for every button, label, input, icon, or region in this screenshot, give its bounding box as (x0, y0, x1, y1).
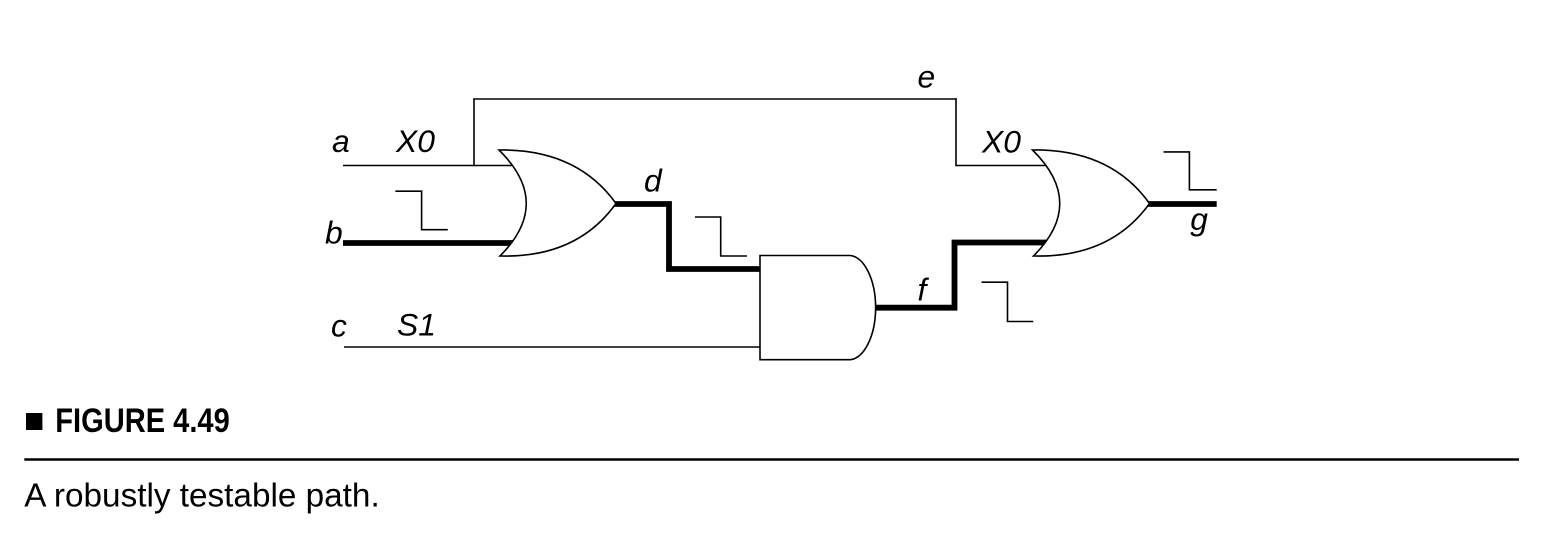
svg-text:FIGURE 4.49: FIGURE 4.49 (55, 401, 229, 440)
svg-text:b: b (325, 215, 343, 251)
svg-text:S1: S1 (397, 307, 436, 343)
wire e top horizontal rail (473, 98, 957, 100)
caption rule (24, 458, 1519, 461)
svg-text:a: a (332, 123, 350, 159)
svg-text:g: g (1190, 201, 1208, 237)
wire e horizontal into OR2 (955, 165, 1052, 167)
svg-text:d: d (644, 163, 663, 199)
and-gate U2 (inputs d,c ; output f) (760, 256, 876, 360)
waveform falling-edge glyph at g (1164, 152, 1217, 190)
wire d (thick path from OR1 output to AND input) (613, 204, 762, 269)
svg-text:A robustly testable path.: A robustly testable path. (24, 478, 379, 515)
svg-text:c: c (331, 308, 347, 344)
or-gate U1 (inputs a,b ; output d) (499, 150, 616, 256)
waveform falling-edge glyph at d (695, 217, 747, 256)
wire b (thick input wire, net b) (343, 240, 518, 246)
wire f (thick path from AND output to OR2 input) (874, 243, 1052, 308)
wire g (thick output wire) (1146, 201, 1217, 207)
waveform falling-edge glyph at b (395, 191, 447, 230)
svg-text:X0: X0 (395, 123, 435, 159)
svg-text:e: e (918, 59, 936, 95)
waveform falling-edge glyph at f (982, 282, 1034, 321)
wire a (thin input wire, net a / X0) (343, 165, 518, 167)
wire e drop to OR2 input (955, 98, 957, 165)
svg-text:X0: X0 (981, 124, 1021, 160)
wire e branch vertical from a up to top rail (473, 99, 475, 166)
wire c (thin input wire, net c / S1) (344, 346, 761, 348)
caption bullet square (26, 413, 42, 430)
or-gate U3 (inputs e,f ; output g) (1033, 150, 1150, 256)
